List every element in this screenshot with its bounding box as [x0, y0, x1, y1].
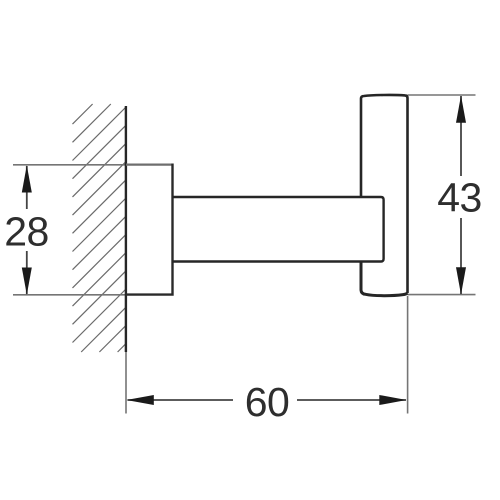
- arrow 28 down: [22, 268, 32, 295]
- dimension extension line 60 right: [407, 296, 409, 414]
- hook end piece outline (left-upper, top, right edges): [361, 95, 408, 293]
- hook end piece bottom (left-lower edge and curved bottom): [361, 262, 407, 296]
- arrow 43 up: [456, 96, 466, 123]
- wall plate top edge: [126, 164, 173, 166]
- dimension extension line 60 left (wall line continuation): [125, 352, 127, 414]
- dimension line 28 (vertical, with gap for text): [26, 166, 28, 209]
- hook arm: [173, 197, 384, 262]
- arrow 43 down: [456, 267, 466, 294]
- dimension line 60 (horizontal, with gap for text): [128, 399, 234, 401]
- dimension extension line 43 top: [408, 94, 476, 96]
- dimension extension line 28 bottom: [13, 294, 126, 296]
- arrow 28 up: [22, 165, 32, 192]
- wall hatching: [73, 104, 127, 352]
- wall plate right and bottom edges: [126, 164, 173, 295]
- svg-text:60: 60: [245, 379, 289, 425]
- arrow 60 left: [127, 395, 154, 405]
- svg-text:43: 43: [437, 175, 481, 221]
- arrow 60 right: [379, 395, 406, 405]
- dimension line 43 (vertical, with gap for text): [460, 96, 462, 176]
- dimension extension line 28 top: [13, 164, 126, 166]
- svg-text:28: 28: [4, 208, 48, 254]
- wall surface line: [125, 106, 127, 352]
- dimension extension line 43 bottom: [408, 294, 476, 296]
